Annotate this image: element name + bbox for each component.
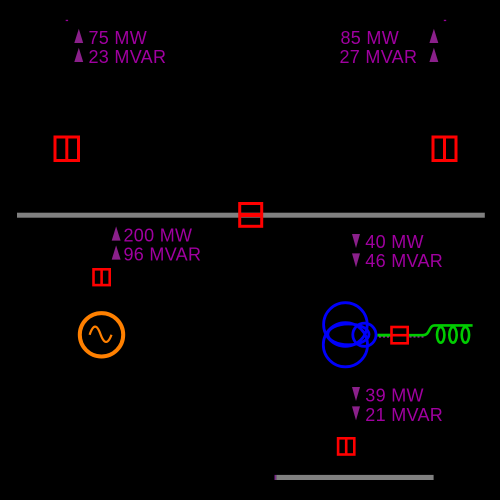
- breaker CB1 (top-left, red double box): [55, 137, 79, 161]
- switch S1 (center red box on bus): [240, 204, 262, 227]
- arrow up, load L2 row1: [429, 29, 438, 43]
- inductor L3 loop 1: [437, 327, 444, 343]
- transformer T1 winding 3 (blue ellipse): [328, 324, 369, 345]
- arrow down, load row2 (21 MVAR): [352, 406, 360, 420]
- svg-text:75 MW: 75 MW: [89, 28, 148, 48]
- svg-text:21 MVAR: 21 MVAR: [365, 405, 443, 425]
- breaker CB2 (top-right, red double box): [433, 137, 456, 161]
- svg-text:200 MW: 200 MW: [124, 225, 193, 245]
- arrow up, generator row2: [112, 245, 121, 259]
- wire flow dots under green lead (left of fuse): [379, 336, 389, 338]
- wire dash above left breaker: [66, 20, 68, 21]
- svg-text:40 MW: 40 MW: [365, 232, 424, 252]
- arrow down, load row1 (39 MW): [352, 387, 360, 401]
- breaker CB3 (generator breaker, red double box): [94, 269, 110, 285]
- generator G1 sine wave: [90, 327, 112, 342]
- arrow up, load L2 row2: [429, 48, 438, 62]
- svg-text:85 MW: 85 MW: [341, 28, 400, 48]
- arrow up, load L1 row1: [74, 29, 83, 43]
- breaker CB4 (bottom, red double box): [338, 438, 354, 454]
- transformer T1 tertiary (small blue circle): [353, 323, 376, 346]
- wire flow dots under green lead (right of fuse): [410, 336, 425, 338]
- svg-text:39 MW: 39 MW: [365, 386, 424, 406]
- fuse F1 (red box with center line): [392, 327, 408, 343]
- bus B2 (bottom busbar): [276, 475, 433, 480]
- arrow down, load row2 (46 MVAR): [352, 253, 360, 267]
- transformer T1 winding 2 (lower blue circle): [323, 323, 367, 367]
- node purple tick at bottom bus left end: [275, 475, 277, 480]
- arrow up, load L1 row2: [74, 48, 83, 62]
- transformer T1 winding 1 (upper blue circle): [324, 303, 368, 347]
- wire transformer to fuse (green): [378, 334, 392, 337]
- svg-text:23 MVAR: 23 MVAR: [89, 47, 167, 67]
- svg-text:46 MVAR: 46 MVAR: [365, 251, 443, 271]
- wire dash above right breaker: [444, 20, 446, 21]
- inductor L3 loop 2: [449, 327, 456, 343]
- generator G1 (orange circle): [80, 313, 123, 356]
- arrow down, load row1 (40 MW): [352, 234, 360, 248]
- arrow up, generator row1: [112, 226, 121, 240]
- bus B1 (main horizontal busbar): [17, 213, 485, 218]
- wire fuse to inductor (green): [409, 325, 473, 335]
- svg-text:96 MVAR: 96 MVAR: [124, 244, 202, 264]
- inductor L3 loop 3: [462, 327, 469, 343]
- svg-text:27 MVAR: 27 MVAR: [340, 47, 418, 67]
